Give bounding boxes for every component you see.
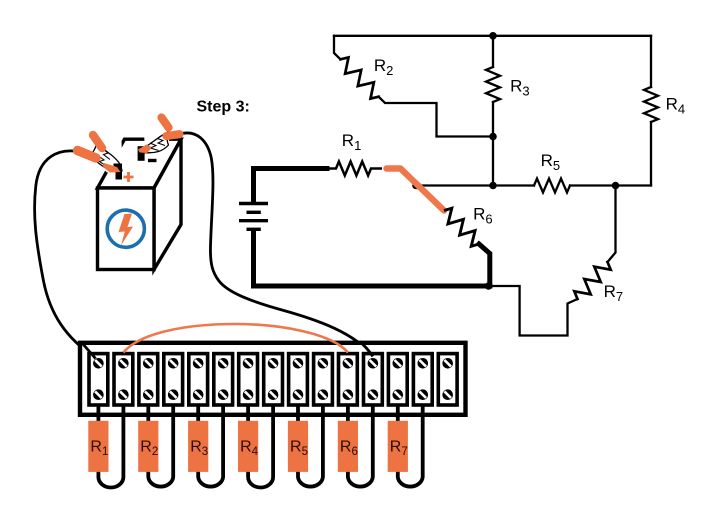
- wire loop resistor R6: [348, 400, 373, 487]
- label plus: [124, 172, 134, 182]
- terminal cell 1: [89, 354, 108, 405]
- wire R6 bottom thick lead: [479, 244, 490, 286]
- battery B1 plates: [239, 204, 268, 230]
- terminal cell 4: [164, 354, 183, 405]
- svg-text:Step 3:: Step 3:: [197, 99, 250, 116]
- battery logo lightning bolt: [119, 214, 134, 246]
- wire R4 top lead: [650, 36, 652, 87]
- clip negative tip: [138, 145, 152, 154]
- resistor R2: [340, 57, 378, 98]
- wire battery top thick: [254, 169, 328, 203]
- battery right face: [154, 139, 181, 269]
- terminal strip body: [80, 343, 466, 415]
- clip positive handle upper: [93, 135, 102, 148]
- svg-text:R1: R1: [342, 131, 362, 153]
- battery front face: [98, 188, 155, 270]
- wire loop resistor R1: [98, 400, 123, 488]
- resistor R4 body: [238, 421, 258, 472]
- svg-text:R7: R7: [604, 282, 624, 304]
- wire R3 top lead: [492, 36, 494, 67]
- svg-text:R3: R3: [510, 77, 530, 99]
- terminal cell 14: [413, 354, 432, 405]
- resistor R1: [327, 162, 382, 176]
- label minus: [148, 159, 157, 162]
- svg-text:R5: R5: [541, 151, 561, 173]
- resistor R7: [574, 262, 610, 299]
- terminal cell 3: [139, 354, 158, 405]
- terminal cell 2: [114, 354, 133, 405]
- clip negative jaw underlay: [144, 130, 170, 154]
- terminal cell 9: [289, 354, 308, 405]
- wire R7 bottom return: [489, 286, 578, 336]
- clip negative handle lower: [167, 134, 180, 136]
- wire loop resistor R4: [248, 400, 273, 488]
- battery top face: [98, 139, 182, 188]
- resistor R5: [534, 179, 570, 193]
- terminal cell 8: [264, 354, 283, 405]
- resistor R3: [486, 67, 500, 102]
- wire loop resistor R2: [148, 400, 173, 487]
- battery logo circle: [107, 210, 144, 247]
- wire battery bottom thick: [254, 231, 490, 286]
- wire orange highlighted jumper: [387, 169, 445, 211]
- wire R3 bottom lead: [492, 102, 494, 186]
- resistor R4: [644, 87, 658, 122]
- wire loop resistor R3: [198, 400, 223, 487]
- node junction dot R1-R6-R5: [412, 182, 420, 190]
- clip positive handle lower: [78, 151, 97, 159]
- resistor R3 body: [188, 421, 208, 472]
- wire negative tip into terminal 12: [360, 342, 373, 357]
- wire R2 to R3 bottom node: [379, 97, 493, 137]
- resistor R6 body: [338, 421, 358, 472]
- wire R7 top lead: [608, 186, 616, 263]
- wire positive tip into terminal 1: [83, 344, 96, 359]
- wire loop resistor R7: [398, 400, 423, 487]
- wire orange jumper terminal 2 to terminal 11: [123, 324, 348, 353]
- node dots: [489, 32, 497, 40]
- terminal cell 12: [364, 354, 383, 405]
- svg-text:R6: R6: [473, 205, 493, 227]
- terminal cell 10: [314, 354, 333, 405]
- svg-text:R2: R2: [374, 56, 394, 78]
- clip positive jaw underlay: [92, 140, 123, 173]
- wire R2 left drop: [334, 36, 340, 60]
- terminal cell 15: [438, 354, 457, 405]
- resistor R5 body: [288, 421, 308, 472]
- clip negative jaw: [142, 132, 169, 153]
- wire from positive clip to terminal 1: [35, 151, 95, 358]
- wire top horizontal: [334, 35, 651, 37]
- resistor R1 body: [88, 421, 108, 472]
- terminal cell 7: [239, 354, 258, 405]
- resistor R6: [444, 208, 479, 246]
- wire from negative clip to terminal 12: [180, 133, 373, 357]
- terminal cell 5: [189, 354, 208, 405]
- wire R5 right lead: [570, 184, 651, 186]
- wire R4 bottom lead: [650, 122, 652, 186]
- svg-text:R4: R4: [666, 94, 686, 116]
- wire loop resistor R5: [298, 400, 323, 487]
- clip negative handle upper: [162, 118, 169, 128]
- terminal cell 11: [339, 354, 358, 405]
- battery terminal negative: [138, 146, 145, 161]
- resistor R2 body: [138, 421, 158, 472]
- clip positive jaw: [92, 141, 122, 172]
- clip positive tip: [103, 163, 121, 173]
- terminal cell 6: [214, 354, 233, 405]
- wire middle horizontal node: [416, 184, 534, 186]
- terminal cell 13: [388, 354, 407, 405]
- resistor R7 body: [388, 421, 408, 472]
- battery terminal positive: [114, 164, 123, 180]
